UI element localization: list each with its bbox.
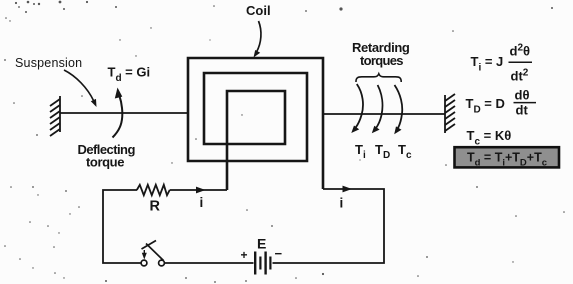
svg-text:dt: dt	[516, 103, 529, 118]
svg-text:−: −	[275, 246, 283, 261]
svg-text:Coil: Coil	[246, 3, 271, 18]
svg-text:torque: torque	[86, 155, 124, 170]
svg-text:dθ: dθ	[515, 88, 530, 103]
svg-text:+: +	[241, 248, 248, 262]
svg-text:E: E	[257, 236, 266, 252]
svg-text:torques: torques	[360, 53, 403, 68]
svg-text:i: i	[340, 196, 344, 211]
svg-text:i: i	[200, 195, 204, 210]
svg-text:R: R	[150, 199, 161, 215]
svg-text:Suspension: Suspension	[15, 56, 82, 70]
